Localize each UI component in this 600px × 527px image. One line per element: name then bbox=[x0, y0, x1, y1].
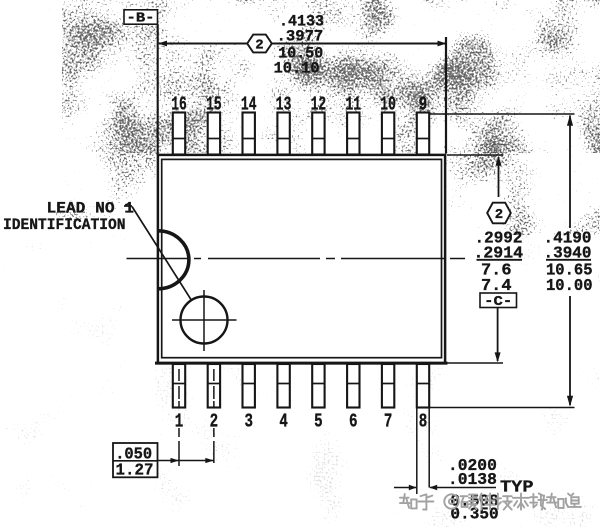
svg-text:9: 9 bbox=[419, 94, 428, 116]
svg-text:6: 6 bbox=[349, 411, 358, 433]
svg-text:14: 14 bbox=[241, 94, 257, 116]
svg-text:10.10: 10.10 bbox=[274, 59, 320, 77]
svg-text:1.27: 1.27 bbox=[116, 462, 154, 481]
svg-text:IDENTIFICATION: IDENTIFICATION bbox=[3, 216, 126, 234]
svg-text:4: 4 bbox=[279, 411, 288, 433]
svg-text:2: 2 bbox=[255, 38, 263, 54]
svg-text:2: 2 bbox=[495, 207, 503, 223]
svg-text:3: 3 bbox=[244, 411, 253, 433]
svg-text:11: 11 bbox=[346, 94, 362, 116]
svg-text:5: 5 bbox=[314, 411, 323, 433]
svg-text:7: 7 bbox=[384, 411, 393, 433]
svg-text:15: 15 bbox=[206, 94, 222, 116]
svg-text:8: 8 bbox=[419, 411, 428, 433]
svg-text:-C-: -C- bbox=[484, 294, 512, 310]
svg-text:-B-: -B- bbox=[127, 11, 155, 27]
svg-text:13: 13 bbox=[276, 94, 292, 116]
svg-text:LEAD NO 1: LEAD NO 1 bbox=[47, 199, 135, 217]
svg-text:TYP: TYP bbox=[500, 478, 534, 497]
svg-text:.0138: .0138 bbox=[448, 471, 497, 490]
svg-text:0.350: 0.350 bbox=[450, 506, 498, 525]
svg-text:12: 12 bbox=[311, 94, 327, 116]
svg-text:10.00: 10.00 bbox=[546, 277, 593, 296]
svg-text:10: 10 bbox=[380, 94, 396, 116]
svg-text:16: 16 bbox=[171, 94, 187, 116]
svg-text:.3977: .3977 bbox=[277, 28, 324, 46]
